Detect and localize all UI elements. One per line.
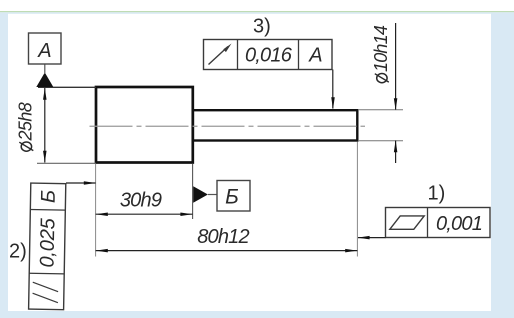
- svg-text:0,016: 0,016: [245, 45, 293, 67]
- datum B triangle: [193, 186, 208, 202]
- arrow up d10h14: [394, 140, 398, 152]
- leader arrow frame 2: [84, 181, 96, 185]
- d10 bottom extension line: [358, 140, 403, 142]
- datum B box: [217, 181, 250, 212]
- top separator line: [0, 11, 514, 12]
- dimension d10h14 lower line: [395, 141, 397, 164]
- leader arrow frame 1: [358, 236, 370, 240]
- extension line mid x192: [192, 164, 194, 219]
- svg-text:Б: Б: [38, 190, 60, 203]
- leader arrow frame 3: [331, 97, 335, 109]
- svg-text:25h8: 25h8: [16, 102, 36, 141]
- svg-text:1): 1): [428, 183, 446, 205]
- datum A box: [29, 33, 62, 64]
- tolerance frame 2 rotated: [29, 183, 66, 310]
- datum B stem: [208, 194, 217, 196]
- parallelism symbol: [33, 282, 59, 291]
- shaft small section 10mm: [193, 110, 357, 140]
- leader frame 3: [332, 70, 334, 109]
- d10 top extension line: [358, 109, 403, 111]
- svg-text:80h12: 80h12: [197, 226, 249, 248]
- arrow left 30h9: [96, 212, 108, 216]
- extension line right x357: [356, 142, 358, 257]
- dimension d10h14 upper line: [395, 23, 397, 110]
- arrow down d10h14: [394, 98, 398, 110]
- tolerance frame 3: [204, 40, 333, 70]
- svg-text:10h14: 10h14: [371, 25, 391, 72]
- runout symbol: [209, 44, 232, 65]
- arrow right 30h9: [180, 212, 192, 216]
- datum A stem: [44, 64, 46, 74]
- svg-text:Б: Б: [225, 186, 238, 209]
- shaft large section 25mm: [96, 87, 193, 163]
- svg-text:A: A: [37, 40, 51, 62]
- label d25h8: [16, 102, 36, 151]
- svg-text:3): 3): [253, 16, 271, 38]
- d25h8 bottom extension line: [37, 162, 96, 164]
- svg-text:30h9: 30h9: [120, 190, 162, 212]
- svg-text:0,001: 0,001: [436, 213, 482, 235]
- arrow left 80h12: [96, 249, 108, 253]
- leader frame 2: [66, 182, 96, 184]
- svg-text:2): 2): [9, 241, 27, 263]
- svg-text:A: A: [308, 45, 322, 67]
- svg-text:0,025: 0,025: [37, 217, 60, 268]
- extension line left x95: [95, 164, 97, 257]
- tolerance frame 1: [386, 208, 491, 238]
- centerline (shaft axis): [90, 125, 366, 127]
- datum A extension line (top surface): [38, 86, 96, 88]
- dimension d25h8 line: [44, 88, 46, 163]
- label d10h14: [371, 25, 391, 83]
- arrow right 80h12: [345, 249, 357, 253]
- datum A triangle: [36, 73, 53, 88]
- leader frame 1: [358, 237, 386, 239]
- arrow down d25h8: [43, 151, 47, 163]
- flatness symbol: [390, 216, 424, 229]
- dimension 30h9 line: [96, 213, 193, 215]
- dimension 80h12 line: [96, 250, 358, 252]
- arrow up d25h8: [43, 88, 47, 100]
